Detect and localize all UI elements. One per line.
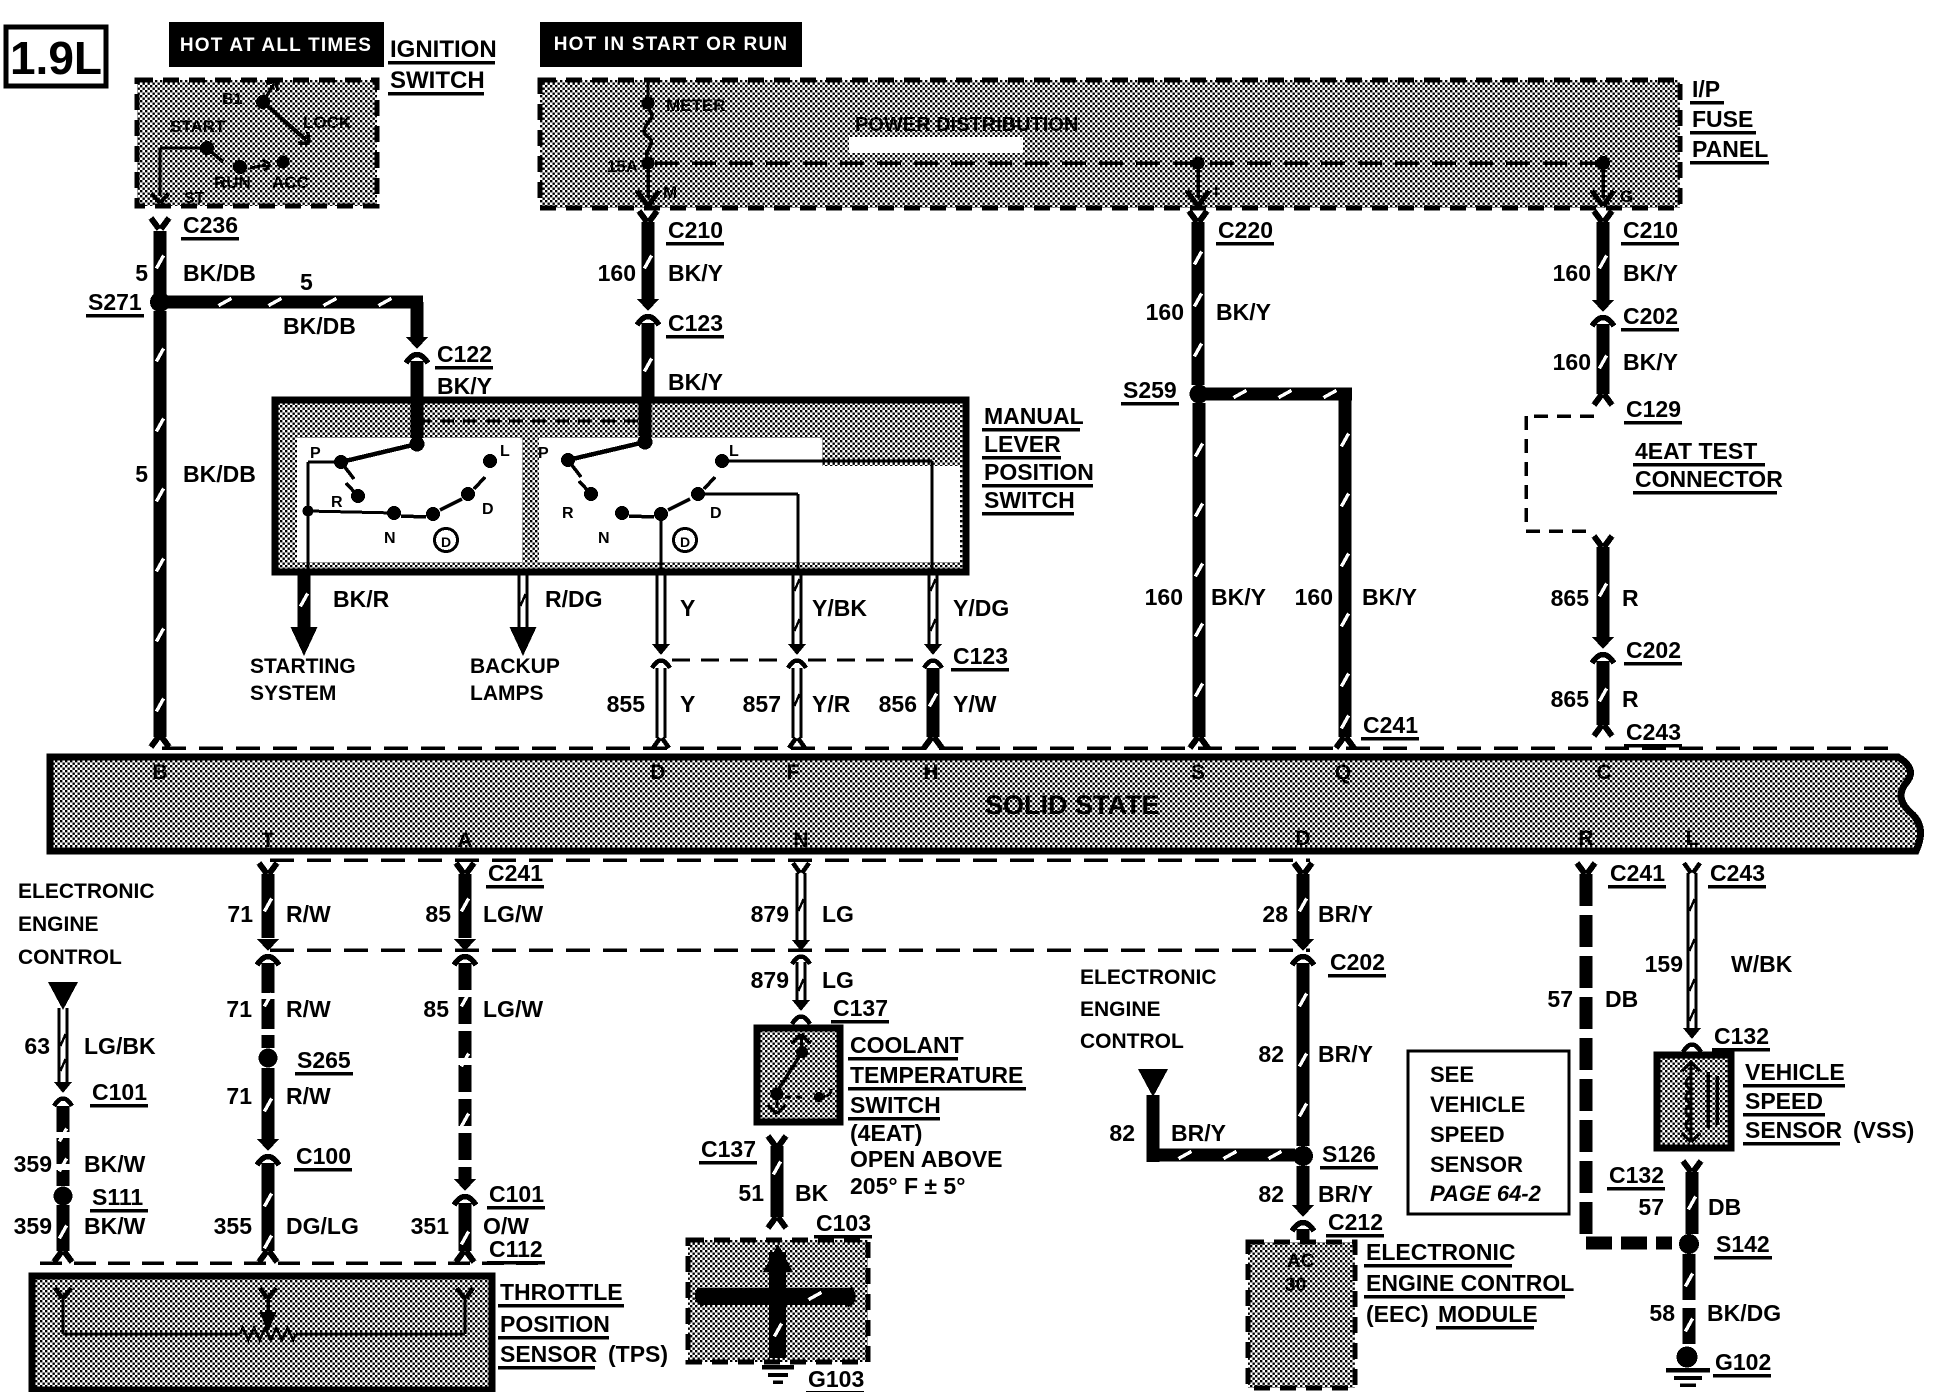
svg-text:BK/Y: BK/Y xyxy=(668,369,723,395)
label COOLANT TEMPERATURE SWITCH (4EAT) xyxy=(848,1032,1026,1199)
wire 85 LG/W (A) row1 xyxy=(425,863,543,938)
wire 160 BK/Y (G) upper xyxy=(1553,222,1678,301)
svg-text:ELECTRONIC: ELECTRONIC xyxy=(1366,1239,1516,1265)
connector C112 dashed row xyxy=(40,1236,545,1264)
svg-text:IGNITION: IGNITION xyxy=(390,36,497,63)
svg-text:C122: C122 xyxy=(437,341,492,367)
svg-text:LG: LG xyxy=(822,967,854,993)
svg-text:VEHICLE: VEHICLE xyxy=(1430,1092,1525,1117)
svg-text:C101: C101 xyxy=(92,1079,147,1105)
MLPS internal dashed link xyxy=(417,420,645,423)
svg-text:ELECTRONIC: ELECTRONIC xyxy=(1080,966,1217,989)
svg-text:D: D xyxy=(1295,827,1310,850)
svg-text:359: 359 xyxy=(14,1151,52,1177)
connector C137 xyxy=(792,995,889,1024)
svg-text:I/P: I/P xyxy=(1692,76,1720,102)
svg-text:LG/W: LG/W xyxy=(483,901,543,927)
MLPS left switch xyxy=(303,400,511,570)
svg-text:82: 82 xyxy=(1258,1181,1284,1207)
svg-text:POSITION: POSITION xyxy=(984,459,1094,485)
header HOT AT ALL TIMES xyxy=(169,22,384,67)
svg-text:(VSS): (VSS) xyxy=(1853,1117,1914,1143)
vehicle speed sensor box xyxy=(1657,1055,1731,1148)
solid state terminal letters bottom xyxy=(262,827,1699,852)
wire 71 R/W (T) row3 xyxy=(226,1068,331,1140)
svg-text:R: R xyxy=(1622,686,1639,712)
svg-text:865: 865 xyxy=(1551,686,1590,712)
wire 28 BR/Y (D) xyxy=(1262,863,1373,940)
svg-text:5: 5 xyxy=(300,269,313,295)
svg-text:M: M xyxy=(663,183,677,202)
svg-text:Y/DG: Y/DG xyxy=(953,595,1009,621)
wire 5 BK/DB from ignition switch xyxy=(135,231,256,294)
svg-text:DB: DB xyxy=(1605,986,1638,1012)
connector C103 xyxy=(768,1210,872,1238)
svg-text:START: START xyxy=(170,117,226,136)
connector C132 lower xyxy=(1607,1161,1701,1190)
wire 57 DB (VSS) xyxy=(1638,1172,1741,1234)
connector C137 lower xyxy=(699,1136,786,1164)
svg-text:LAMPS: LAMPS xyxy=(470,682,544,705)
svg-text:57: 57 xyxy=(1638,1194,1664,1220)
svg-text:LG: LG xyxy=(822,901,854,927)
svg-text:S271: S271 xyxy=(88,289,142,315)
svg-text:879: 879 xyxy=(751,901,789,927)
wire 865 R upper xyxy=(1551,536,1639,640)
svg-text:C202: C202 xyxy=(1330,949,1385,975)
svg-text:S126: S126 xyxy=(1322,1141,1376,1167)
svg-text:C112: C112 xyxy=(489,1236,543,1262)
svg-text:F: F xyxy=(787,761,800,784)
svg-text:C241: C241 xyxy=(1363,712,1418,738)
splice S142 xyxy=(1679,1231,1772,1259)
svg-text:CONTROL: CONTROL xyxy=(1080,1030,1184,1053)
svg-text:TEMPERATURE: TEMPERATURE xyxy=(850,1062,1023,1088)
svg-text:R: R xyxy=(331,494,343,511)
svg-text:ST: ST xyxy=(184,190,205,207)
svg-text:LG/BK: LG/BK xyxy=(84,1033,156,1059)
wire 856 Y/W xyxy=(879,668,997,748)
wire 5 BK/DB down to solid state B xyxy=(135,311,256,747)
connector T row2 xyxy=(257,939,279,965)
connector C100 xyxy=(257,1139,352,1171)
svg-text:Y: Y xyxy=(680,691,695,717)
wire into EEC module xyxy=(1297,1229,1310,1240)
svg-text:RUN: RUN xyxy=(214,173,251,192)
svg-text:R: R xyxy=(1578,827,1593,850)
wire 855 Y xyxy=(607,668,696,748)
svg-text:Y: Y xyxy=(680,595,695,621)
svg-text:G103: G103 xyxy=(808,1366,864,1392)
svg-text:LOCK: LOCK xyxy=(303,113,352,132)
svg-text:Y/BK: Y/BK xyxy=(812,595,867,621)
svg-text:ENGINE: ENGINE xyxy=(1080,998,1161,1021)
svg-text:H: H xyxy=(923,761,938,784)
svg-text:ENGINE: ENGINE xyxy=(18,913,99,936)
label I/P FUSE PANEL xyxy=(1690,76,1769,164)
svg-text:S: S xyxy=(1191,761,1205,784)
splice S126 xyxy=(1293,1141,1378,1169)
svg-text:W/BK: W/BK xyxy=(1731,951,1793,977)
connector C243 at solid state C xyxy=(1594,719,1682,747)
svg-text:C243: C243 xyxy=(1626,719,1681,745)
connector A row2 xyxy=(454,939,476,965)
svg-text:51: 51 xyxy=(738,1180,764,1206)
label MANUAL LEVER POSITION SWITCH xyxy=(982,403,1094,515)
svg-text:BK/DB: BK/DB xyxy=(283,313,356,339)
svg-text:C123: C123 xyxy=(953,643,1008,669)
wire Y/DG upper xyxy=(928,572,1010,644)
connector C132 upper xyxy=(1683,1023,1770,1052)
wire 879 LG (N) row2 xyxy=(751,962,854,1002)
svg-text:SPEED: SPEED xyxy=(1430,1122,1505,1147)
svg-text:205° F ± 5°: 205° F ± 5° xyxy=(850,1173,965,1199)
svg-text:C241: C241 xyxy=(488,860,543,886)
svg-text:SEE: SEE xyxy=(1430,1062,1474,1087)
svg-text:15A: 15A xyxy=(607,157,638,176)
svg-text:856: 856 xyxy=(879,691,917,717)
wire 82 BR/Y from EEC arrow to S126 xyxy=(1109,1069,1295,1162)
wire Y upper xyxy=(656,572,696,644)
VSS coil internals xyxy=(1682,1062,1717,1142)
svg-text:160: 160 xyxy=(1295,584,1333,610)
connector C122 xyxy=(406,337,493,399)
joint connector box xyxy=(688,1240,868,1362)
connector row C241/C243 dashed line above solid state xyxy=(162,746,1895,750)
svg-text:S142: S142 xyxy=(1716,1231,1770,1257)
connector row C241/C243 dashed line below solid state xyxy=(270,858,1310,862)
svg-text:C243: C243 xyxy=(1710,860,1765,886)
joint connector cross xyxy=(697,1244,853,1358)
wire 82 BR/Y (D) xyxy=(1258,963,1373,1146)
fuse panel bus (dashed) xyxy=(655,161,1600,165)
svg-text:28: 28 xyxy=(1262,901,1288,927)
connector C202 (G) xyxy=(1592,300,1679,331)
svg-text:BR/Y: BR/Y xyxy=(1318,901,1373,927)
wire 85 LG/W (A) row2 xyxy=(423,963,543,1180)
svg-text:SENSOR: SENSOR xyxy=(1430,1152,1523,1177)
label ELECTRONIC ENGINE CONTROL left xyxy=(18,880,155,969)
svg-text:4EAT TEST: 4EAT TEST xyxy=(1635,438,1757,464)
svg-text:CONTROL: CONTROL xyxy=(18,946,122,969)
svg-text:D: D xyxy=(441,534,451,550)
label VEHICLE SPEED SENSOR (VSS) xyxy=(1743,1059,1914,1145)
svg-text:POSITION: POSITION xyxy=(500,1311,610,1337)
connector C123 row xyxy=(652,643,1009,671)
EEC module box xyxy=(1248,1242,1355,1388)
svg-text:D: D xyxy=(650,761,665,784)
wire 63 LG/BK with arrow xyxy=(24,982,156,1084)
svg-text:(TPS): (TPS) xyxy=(608,1341,668,1367)
svg-text:865: 865 xyxy=(1551,585,1590,611)
wire 51 BK xyxy=(738,1146,828,1217)
svg-text:Y/W: Y/W xyxy=(953,691,997,717)
svg-text:COOLANT: COOLANT xyxy=(850,1032,964,1058)
coolant switch contacts xyxy=(768,1034,831,1114)
TPS internals xyxy=(55,1288,473,1340)
connector row C202 dashed line xyxy=(270,948,1310,952)
label THROTTLE POSITION SENSOR (TPS) xyxy=(498,1279,668,1369)
svg-text:R: R xyxy=(562,505,574,522)
svg-text:HOT IN START OR RUN: HOT IN START OR RUN xyxy=(554,34,789,55)
svg-text:351: 351 xyxy=(411,1213,450,1239)
svg-text:355: 355 xyxy=(214,1213,253,1239)
svg-text:P: P xyxy=(310,445,321,462)
label POWER DISTRIBUTION xyxy=(849,114,1078,153)
svg-text:VEHICLE: VEHICLE xyxy=(1745,1059,1845,1085)
svg-text:160: 160 xyxy=(598,260,636,286)
wire 359 BK/W lower xyxy=(14,1205,146,1262)
wire Y/BK upper xyxy=(792,572,868,644)
svg-text:5: 5 xyxy=(135,260,148,286)
svg-text:Q: Q xyxy=(1335,761,1351,784)
svg-text:BR/Y: BR/Y xyxy=(1171,1120,1226,1146)
svg-text:G102: G102 xyxy=(1715,1349,1771,1375)
wire 82 BR/Y to C212 xyxy=(1258,1166,1373,1208)
svg-text:PANEL: PANEL xyxy=(1692,136,1768,162)
svg-text:OPEN ABOVE: OPEN ABOVE xyxy=(850,1146,1003,1172)
fuse output G xyxy=(1592,156,1633,206)
svg-text:N: N xyxy=(384,530,396,547)
svg-text:BK/DG: BK/DG xyxy=(1707,1300,1781,1326)
svg-text:C241: C241 xyxy=(1610,860,1665,886)
header HOT IN START OR RUN xyxy=(540,22,802,67)
svg-text:DG/LG: DG/LG xyxy=(286,1213,359,1239)
splice S111 xyxy=(54,1184,149,1212)
ground G102 xyxy=(1666,1347,1771,1386)
svg-text:71: 71 xyxy=(226,1083,252,1109)
4EAT test connector (dashed) xyxy=(1526,416,1783,531)
wire 160 BK/Y (M) xyxy=(598,222,723,300)
svg-text:71: 71 xyxy=(227,901,253,927)
wire 359 BK/W upper xyxy=(14,1106,146,1186)
ground G103 xyxy=(762,1366,864,1394)
svg-text:S111: S111 xyxy=(92,1184,143,1210)
label STARTING SYSTEM xyxy=(250,655,356,705)
svg-text:855: 855 xyxy=(607,691,646,717)
svg-text:C100: C100 xyxy=(296,1143,351,1169)
wire 71 R/W (T) row2 xyxy=(226,963,331,1048)
svg-text:D: D xyxy=(710,505,722,522)
svg-text:G: G xyxy=(1620,187,1633,206)
svg-text:SWITCH: SWITCH xyxy=(984,487,1075,513)
connector C212 xyxy=(1292,1205,1384,1237)
svg-text:CONNECTOR: CONNECTOR xyxy=(1635,466,1783,492)
svg-text:R/W: R/W xyxy=(286,1083,331,1109)
svg-text:METER: METER xyxy=(666,96,726,115)
svg-text:C132: C132 xyxy=(1609,1162,1664,1188)
svg-text:C210: C210 xyxy=(668,217,723,243)
svg-text:(4EAT): (4EAT) xyxy=(850,1120,922,1146)
svg-text:BK/Y: BK/Y xyxy=(1623,260,1678,286)
svg-text:LG/W: LG/W xyxy=(483,996,543,1022)
wire 160 BK/Y S259 to C241 (Q) xyxy=(1199,388,1419,749)
svg-text:R/W: R/W xyxy=(286,901,331,927)
label IGNITION SWITCH xyxy=(388,36,497,95)
svg-text:R: R xyxy=(1622,585,1639,611)
svg-text:71: 71 xyxy=(226,996,252,1022)
engine label 1.9L xyxy=(6,27,106,86)
svg-text:85: 85 xyxy=(423,996,449,1022)
svg-text:85: 85 xyxy=(425,901,451,927)
throttle position sensor box xyxy=(32,1276,492,1390)
svg-text:C129: C129 xyxy=(1626,396,1681,422)
splice S259 xyxy=(1121,377,1209,405)
wire 351 O/W xyxy=(411,1203,530,1262)
svg-text:I: I xyxy=(1214,183,1218,200)
svg-text:82: 82 xyxy=(1258,1041,1284,1067)
connector C210 (G) xyxy=(1594,211,1679,245)
svg-text:879: 879 xyxy=(751,967,789,993)
label BACKUP LAMPS xyxy=(470,655,560,705)
svg-text:R/DG: R/DG xyxy=(545,586,603,612)
svg-text:DB: DB xyxy=(1708,1194,1741,1220)
svg-text:PAGE 64-2: PAGE 64-2 xyxy=(1430,1181,1542,1206)
svg-text:160: 160 xyxy=(1553,260,1591,286)
solid state terminal letters top xyxy=(152,761,1611,784)
svg-text:C101: C101 xyxy=(489,1181,544,1207)
svg-text:359: 359 xyxy=(14,1213,52,1239)
svg-text:N: N xyxy=(793,829,808,852)
svg-text:L: L xyxy=(729,443,739,460)
wire 355 DG/LG xyxy=(214,1163,359,1262)
svg-text:C132: C132 xyxy=(1714,1023,1769,1049)
svg-text:C236: C236 xyxy=(183,212,238,238)
svg-text:MANUAL: MANUAL xyxy=(984,403,1084,429)
svg-text:C202: C202 xyxy=(1626,637,1681,663)
svg-text:C220: C220 xyxy=(1218,217,1273,243)
connector C129 xyxy=(1594,394,1682,424)
wire 159 W/BK (L) xyxy=(1608,860,1793,1030)
svg-text:57: 57 xyxy=(1547,986,1573,1012)
svg-text:1.9L: 1.9L xyxy=(10,32,102,84)
svg-text:R/W: R/W xyxy=(286,996,331,1022)
wire 71 R/W (T) row1 xyxy=(227,863,331,938)
svg-text:BK/DB: BK/DB xyxy=(183,260,256,286)
svg-text:857: 857 xyxy=(743,691,781,717)
svg-text:C137: C137 xyxy=(701,1136,756,1162)
splice S271 xyxy=(86,289,170,317)
connector N row2 xyxy=(792,940,810,964)
fuse output I xyxy=(1187,157,1218,207)
svg-text:D: D xyxy=(680,534,690,550)
svg-text:FUSE: FUSE xyxy=(1692,106,1753,132)
svg-text:C: C xyxy=(1596,761,1611,784)
svg-text:POWER DISTRIBUTION: POWER DISTRIBUTION xyxy=(855,114,1078,136)
manual lever position switch box xyxy=(275,400,966,572)
connector C210 (M) xyxy=(639,211,724,245)
wire 857 Y/R xyxy=(743,668,851,748)
svg-text:T: T xyxy=(262,829,275,852)
svg-text:C202: C202 xyxy=(1623,303,1678,329)
ignition switch box xyxy=(137,80,377,206)
splice S265 xyxy=(259,1047,354,1075)
svg-text:BK/W: BK/W xyxy=(84,1151,146,1177)
svg-text:159: 159 xyxy=(1645,951,1683,977)
svg-text:C212: C212 xyxy=(1328,1209,1383,1235)
svg-text:SPEED: SPEED xyxy=(1745,1088,1823,1114)
fuse output M xyxy=(637,166,677,206)
wire 160 BK/Y (G) lower xyxy=(1553,324,1678,394)
wire 5 BK/DB to C122 xyxy=(166,269,424,340)
solid state module band xyxy=(50,757,1920,851)
svg-text:S265: S265 xyxy=(297,1047,351,1073)
see vehicle speed sensor note box xyxy=(1408,1051,1569,1214)
connector C220 (I) xyxy=(1189,211,1274,245)
svg-text:P: P xyxy=(538,445,549,462)
wire 58 BK/DG xyxy=(1649,1254,1781,1344)
svg-text:BACKUP: BACKUP xyxy=(470,655,560,678)
wire 160 BK/Y (I) xyxy=(1146,222,1271,385)
wire 57 DB (R) dashed xyxy=(1547,863,1672,1250)
svg-text:L: L xyxy=(1686,827,1699,850)
svg-text:B: B xyxy=(152,761,167,784)
svg-text:BK: BK xyxy=(795,1180,829,1206)
svg-text:5: 5 xyxy=(135,461,148,487)
svg-text:SWITCH: SWITCH xyxy=(390,67,485,94)
svg-text:BK/Y: BK/Y xyxy=(1216,299,1271,325)
svg-text:63: 63 xyxy=(24,1033,50,1059)
wire 879 LG (N) row1 xyxy=(751,863,854,940)
svg-text:ACC: ACC xyxy=(272,173,309,192)
MLPS right switch xyxy=(538,400,932,570)
connector C202 (D) xyxy=(1292,939,1386,977)
svg-text:BK/Y: BK/Y xyxy=(668,260,723,286)
svg-text:BK/W: BK/W xyxy=(84,1213,146,1239)
coolant temperature switch box xyxy=(757,1028,840,1122)
label ELECTRONIC ENGINE CONTROL right xyxy=(1080,966,1217,1053)
wire BK/Y into manual lever position switch xyxy=(411,361,424,400)
svg-text:BK/R: BK/R xyxy=(333,586,390,612)
svg-text:BR/Y: BR/Y xyxy=(1318,1041,1373,1067)
connector C236 xyxy=(151,212,239,240)
ignition switch contacts xyxy=(151,81,352,207)
I/P fuse panel box (power distribution) xyxy=(540,80,1680,208)
svg-text:C123: C123 xyxy=(668,310,723,336)
wire BK/Y into MLPS xyxy=(642,323,723,400)
svg-text:BK/Y: BK/Y xyxy=(1362,584,1417,610)
svg-text:C103: C103 xyxy=(816,1210,871,1236)
svg-text:N: N xyxy=(598,530,610,547)
svg-text:C210: C210 xyxy=(1623,217,1678,243)
svg-text:BK/DB: BK/DB xyxy=(183,461,256,487)
svg-text:82: 82 xyxy=(1109,1120,1135,1146)
label SOLID STATE xyxy=(985,790,1160,820)
svg-text:160: 160 xyxy=(1145,584,1183,610)
svg-text:AC: AC xyxy=(1287,1251,1315,1272)
svg-text:LEVER: LEVER xyxy=(984,431,1061,457)
wire R/DG to backup lamps xyxy=(510,572,603,656)
svg-text:B1: B1 xyxy=(222,91,243,108)
svg-text:160: 160 xyxy=(1553,349,1591,375)
connector C202 (865) xyxy=(1592,637,1682,665)
fuse 15A with meter feed xyxy=(607,82,726,176)
svg-text:Y/R: Y/R xyxy=(812,691,851,717)
connector C101 left xyxy=(54,1079,148,1107)
connector C101 (A) xyxy=(454,1179,545,1209)
svg-text:160: 160 xyxy=(1146,299,1184,325)
svg-text:ENGINE CONTROL: ENGINE CONTROL xyxy=(1366,1270,1574,1296)
svg-text:BK/Y: BK/Y xyxy=(1211,584,1266,610)
wire 160 BK/Y S259 down to solid state S xyxy=(1145,403,1266,748)
svg-text:SENSOR: SENSOR xyxy=(500,1341,598,1367)
svg-text:S259: S259 xyxy=(1123,377,1177,403)
svg-text:ELECTRONIC: ELECTRONIC xyxy=(18,880,155,903)
svg-text:THROTTLE: THROTTLE xyxy=(500,1279,623,1305)
svg-text:MODULE: MODULE xyxy=(1438,1301,1538,1327)
svg-text:(EEC): (EEC) xyxy=(1366,1301,1429,1327)
svg-text:BR/Y: BR/Y xyxy=(1318,1181,1373,1207)
